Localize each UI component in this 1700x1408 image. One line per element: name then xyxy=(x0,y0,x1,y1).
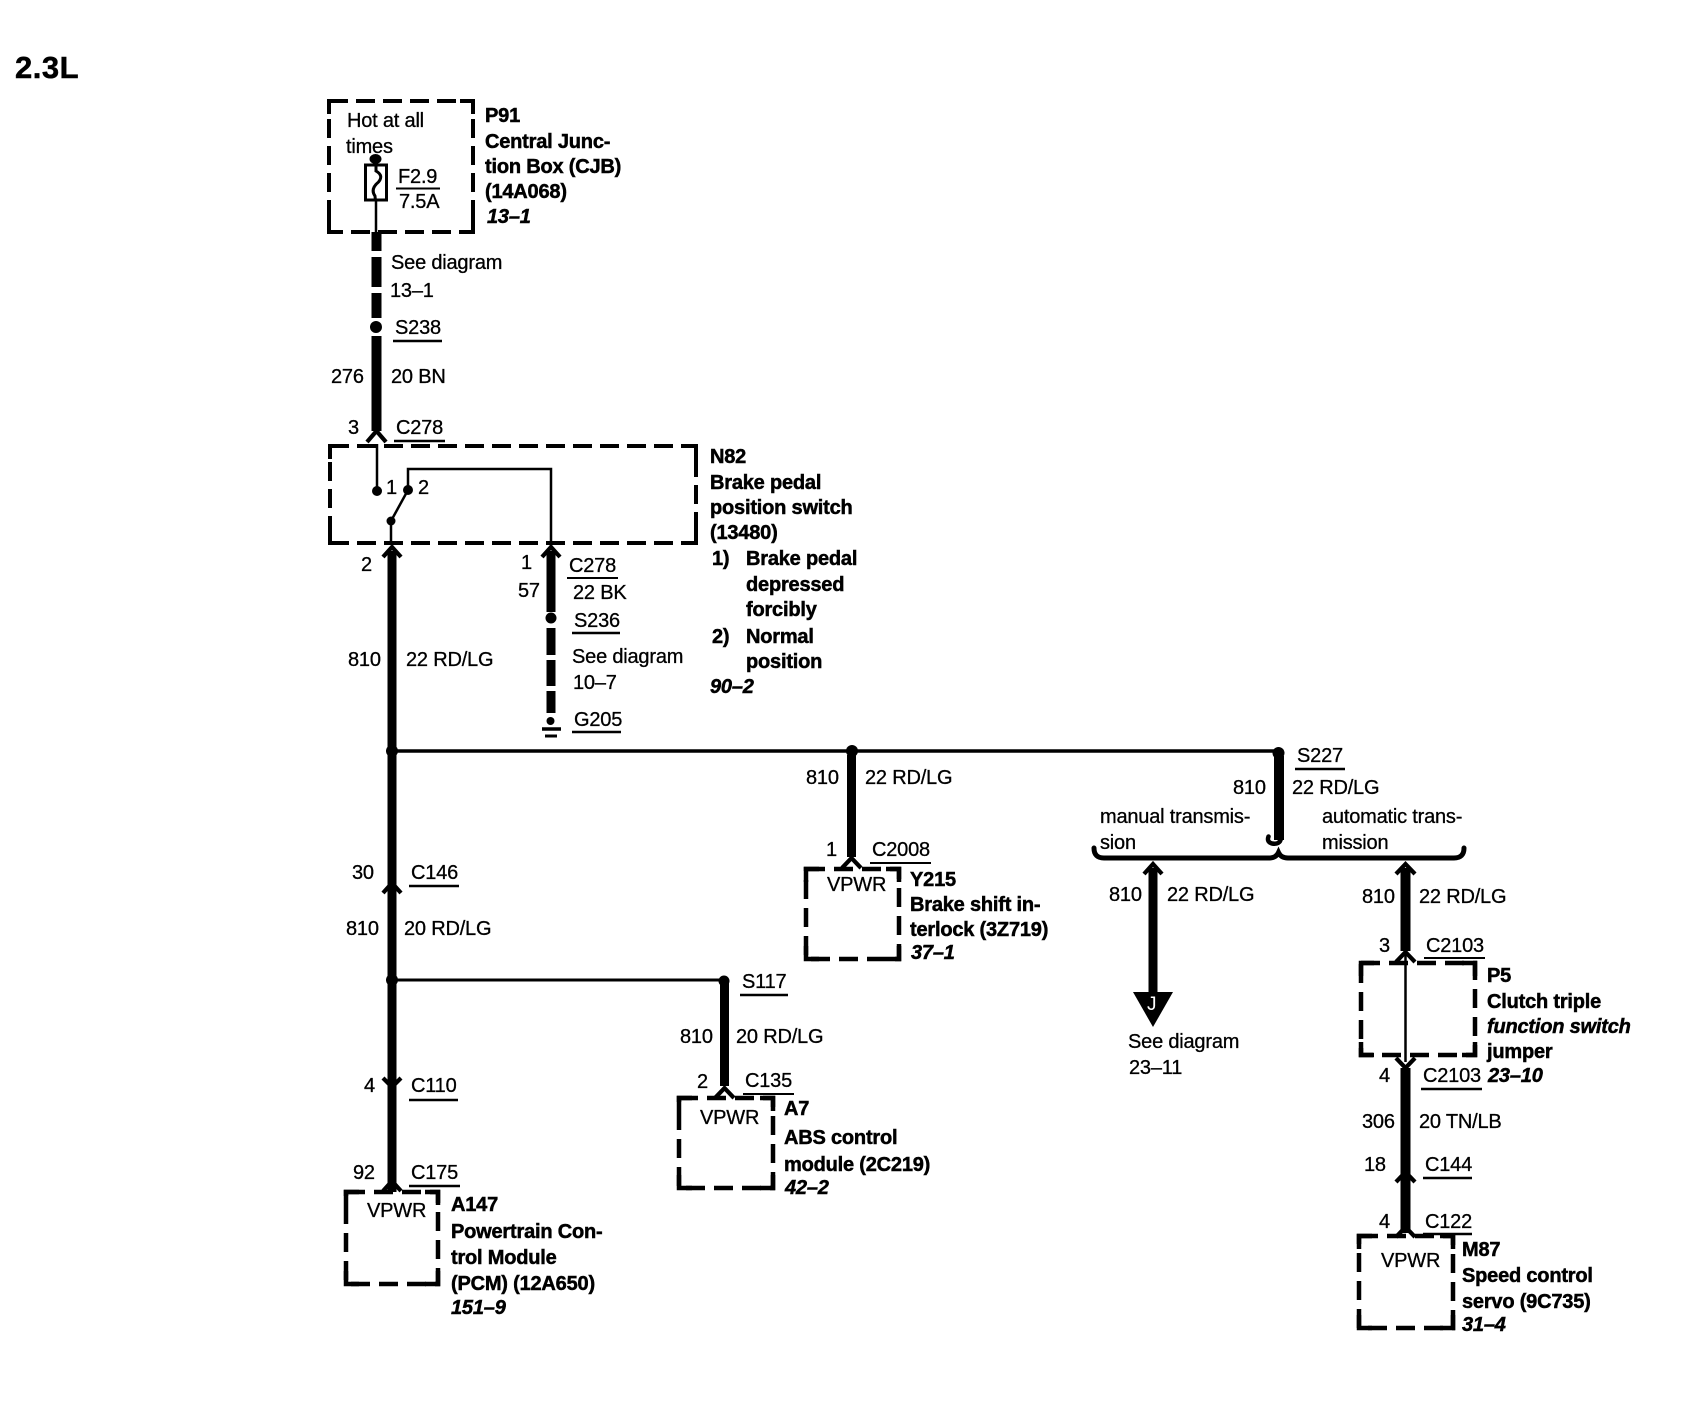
svg-text:A7: A7 xyxy=(784,1098,809,1120)
svg-text:810: 810 xyxy=(1362,886,1395,908)
svg-text:3: 3 xyxy=(348,417,359,439)
svg-text:2: 2 xyxy=(697,1071,708,1093)
svg-text:22 RD/LG: 22 RD/LG xyxy=(865,767,952,789)
svg-text:22 RD/LG: 22 RD/LG xyxy=(1292,777,1379,799)
svg-text:tion Box (CJB): tion Box (CJB) xyxy=(485,156,621,178)
svg-text:13–1: 13–1 xyxy=(390,280,434,302)
svg-text:VPWR: VPWR xyxy=(1381,1250,1440,1272)
svg-text:C278: C278 xyxy=(396,417,443,439)
svg-text:4: 4 xyxy=(1379,1065,1390,1087)
svg-text:VPWR: VPWR xyxy=(700,1107,759,1129)
svg-text:Clutch triple: Clutch triple xyxy=(1487,991,1601,1013)
svg-text:P91: P91 xyxy=(485,105,520,127)
svg-text:S238: S238 xyxy=(395,317,441,339)
svg-text:Speed control: Speed control xyxy=(1462,1265,1593,1287)
svg-text:Brake pedal: Brake pedal xyxy=(710,472,821,494)
svg-text:1: 1 xyxy=(386,477,397,499)
svg-text:22 RD/LG: 22 RD/LG xyxy=(406,649,493,671)
svg-text:22 RD/LG: 22 RD/LG xyxy=(1167,884,1254,906)
svg-text:C175: C175 xyxy=(411,1162,458,1184)
svg-text:P5: P5 xyxy=(1487,965,1511,987)
svg-text:See diagram: See diagram xyxy=(1128,1031,1239,1053)
svg-text:1): 1) xyxy=(712,548,729,570)
svg-text:C122: C122 xyxy=(1425,1211,1472,1233)
svg-text:automatic trans-: automatic trans- xyxy=(1322,806,1462,828)
svg-text:2): 2) xyxy=(712,626,729,648)
svg-text:Brake pedal: Brake pedal xyxy=(746,548,857,570)
svg-text:mission: mission xyxy=(1322,832,1388,854)
svg-text:See diagram: See diagram xyxy=(391,252,502,274)
svg-text:VPWR: VPWR xyxy=(827,874,886,896)
svg-text:10–7: 10–7 xyxy=(573,672,617,694)
svg-text:C2103: C2103 xyxy=(1426,935,1484,957)
svg-text:42–2: 42–2 xyxy=(784,1177,829,1199)
svg-text:20 RD/LG: 20 RD/LG xyxy=(404,918,491,940)
svg-text:2.3L: 2.3L xyxy=(15,50,79,85)
svg-text:37–1: 37–1 xyxy=(911,942,955,964)
svg-text:S236: S236 xyxy=(574,610,620,632)
svg-text:C2008: C2008 xyxy=(872,839,930,861)
svg-text:S117: S117 xyxy=(742,971,787,993)
svg-text:90–2: 90–2 xyxy=(710,676,754,698)
svg-text:(14A068): (14A068) xyxy=(485,181,567,203)
svg-text:20 RD/LG: 20 RD/LG xyxy=(736,1026,823,1048)
svg-text:ABS control: ABS control xyxy=(784,1127,897,1149)
svg-text:57: 57 xyxy=(518,580,540,602)
svg-text:See diagram: See diagram xyxy=(572,646,683,668)
svg-text:C135: C135 xyxy=(745,1070,792,1092)
svg-text:810: 810 xyxy=(1109,884,1142,906)
svg-text:(13480): (13480) xyxy=(710,522,778,544)
svg-text:810: 810 xyxy=(680,1026,713,1048)
svg-text:4: 4 xyxy=(1379,1211,1390,1233)
svg-text:trol Module: trol Module xyxy=(451,1247,557,1269)
svg-text:276: 276 xyxy=(331,366,364,388)
svg-text:Powertrain Con-: Powertrain Con- xyxy=(451,1221,602,1243)
svg-text:C144: C144 xyxy=(1425,1154,1472,1176)
svg-text:VPWR: VPWR xyxy=(367,1200,426,1222)
svg-text:810: 810 xyxy=(1233,777,1266,799)
svg-text:Normal: Normal xyxy=(746,626,814,648)
svg-text:position: position xyxy=(746,651,822,673)
svg-text:forcibly: forcibly xyxy=(746,599,818,621)
svg-text:4: 4 xyxy=(364,1075,375,1097)
svg-text:1: 1 xyxy=(826,839,837,861)
svg-text:sion: sion xyxy=(1100,832,1136,854)
svg-text:position switch: position switch xyxy=(710,497,853,519)
svg-text:C146: C146 xyxy=(411,862,458,884)
svg-text:151–9: 151–9 xyxy=(451,1297,507,1319)
svg-text:times: times xyxy=(346,136,393,158)
svg-text:function switch: function switch xyxy=(1487,1016,1631,1038)
svg-text:S227: S227 xyxy=(1297,745,1343,767)
svg-text:92: 92 xyxy=(353,1162,375,1184)
svg-text:Hot at all: Hot at all xyxy=(347,110,424,132)
svg-text:jumper: jumper xyxy=(1486,1041,1553,1063)
svg-text:J: J xyxy=(1147,994,1156,1015)
svg-text:G205: G205 xyxy=(574,709,622,731)
svg-text:1: 1 xyxy=(521,552,532,574)
svg-text:depressed: depressed xyxy=(746,574,844,596)
svg-text:M87: M87 xyxy=(1462,1239,1500,1261)
svg-text:N82: N82 xyxy=(710,446,746,468)
svg-text:23–10: 23–10 xyxy=(1487,1065,1543,1087)
svg-text:810: 810 xyxy=(806,767,839,789)
svg-text:servo (9C735): servo (9C735) xyxy=(1462,1291,1591,1313)
svg-text:C2103: C2103 xyxy=(1423,1065,1481,1087)
svg-text:810: 810 xyxy=(348,649,381,671)
svg-text:13–1: 13–1 xyxy=(487,206,531,228)
svg-text:A147: A147 xyxy=(451,1194,498,1216)
svg-text:306: 306 xyxy=(1362,1111,1395,1133)
svg-text:810: 810 xyxy=(346,918,379,940)
svg-text:31–4: 31–4 xyxy=(1462,1314,1506,1336)
svg-text:Y215: Y215 xyxy=(910,869,956,891)
svg-text:C110: C110 xyxy=(411,1075,457,1097)
svg-text:2: 2 xyxy=(361,554,372,576)
svg-text:Brake shift in-: Brake shift in- xyxy=(910,894,1040,916)
svg-text:(PCM) (12A650): (PCM) (12A650) xyxy=(451,1273,595,1295)
svg-text:F2.9: F2.9 xyxy=(398,166,437,188)
svg-text:18: 18 xyxy=(1364,1154,1386,1176)
svg-text:7.5A: 7.5A xyxy=(399,191,440,213)
svg-text:22 BK: 22 BK xyxy=(573,582,627,604)
svg-text:23–11: 23–11 xyxy=(1129,1057,1182,1079)
svg-text:20 BN: 20 BN xyxy=(391,366,446,388)
svg-text:3: 3 xyxy=(1379,935,1390,957)
svg-text:C278: C278 xyxy=(569,555,616,577)
svg-text:22 RD/LG: 22 RD/LG xyxy=(1419,886,1506,908)
svg-text:30: 30 xyxy=(352,862,374,884)
svg-text:20 TN/LB: 20 TN/LB xyxy=(1419,1111,1502,1133)
svg-text:manual transmis-: manual transmis- xyxy=(1100,806,1250,828)
svg-text:Central Junc-: Central Junc- xyxy=(485,131,610,153)
svg-text:2: 2 xyxy=(418,477,429,499)
svg-text:module (2C219): module (2C219) xyxy=(784,1154,930,1176)
svg-text:terlock (3Z719): terlock (3Z719) xyxy=(910,919,1048,941)
